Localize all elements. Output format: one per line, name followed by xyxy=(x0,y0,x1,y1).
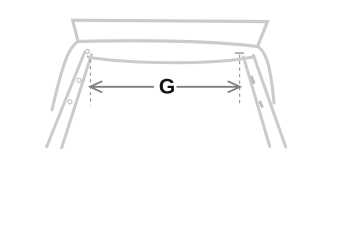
rear left leg xyxy=(52,42,78,111)
left dashed extension line xyxy=(90,60,92,106)
slot upper right leg xyxy=(252,77,254,83)
right arrowhead xyxy=(228,81,240,92)
label G xyxy=(160,79,174,94)
arrow shaft left segment xyxy=(91,86,154,88)
pivot circle left xyxy=(85,49,89,53)
T mark right xyxy=(235,52,244,54)
front right leg inner edge xyxy=(244,57,270,146)
front right leg outer edge xyxy=(254,56,286,148)
left arrowhead xyxy=(90,81,102,92)
rear right leg xyxy=(258,47,275,104)
front left leg inner edge xyxy=(62,55,92,148)
leg hole lower left xyxy=(68,100,72,104)
front rail xyxy=(90,57,254,63)
leg hole upper left xyxy=(77,78,81,82)
right dashed extension line xyxy=(239,55,241,105)
tabletop outline (left edge, back edge, right edge) xyxy=(73,20,268,46)
front left leg outer edge xyxy=(47,53,85,147)
arrow shaft right segment xyxy=(177,86,240,88)
slot lower right leg xyxy=(260,102,262,107)
tabletop front edge xyxy=(78,41,258,47)
first dash below pivot xyxy=(87,55,89,57)
